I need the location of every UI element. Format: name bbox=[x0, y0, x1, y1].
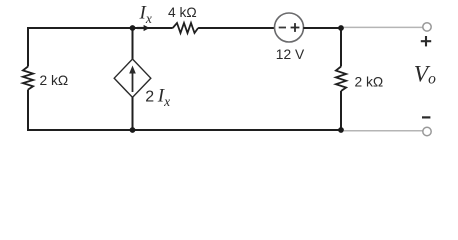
plus sign (output polarity) bbox=[421, 36, 431, 46]
wire right vertical (bottom part) bbox=[340, 91, 342, 130]
resistor R3 2 kOhm right bbox=[336, 67, 346, 92]
wire top segment D (source to right node) bbox=[303, 27, 341, 29]
wire left vertical (top part) bbox=[27, 28, 29, 67]
svg-text:2 kΩ: 2 kΩ bbox=[355, 74, 384, 89]
wire gray bottom (to output terminal) bbox=[344, 130, 423, 132]
wire top segment A (left corner to middle node) bbox=[27, 27, 133, 29]
junction node bottom-right bbox=[338, 127, 344, 133]
svg-text:Ix: Ix bbox=[139, 2, 152, 26]
wire bottom bbox=[27, 129, 341, 131]
svg-text:4 kΩ: 4 kΩ bbox=[168, 5, 197, 20]
junction node top-middle bbox=[130, 25, 136, 31]
minus sign (output polarity) bbox=[422, 116, 430, 118]
wire gray top (to output terminal) bbox=[344, 26, 423, 28]
wire middle vertical (top part) bbox=[132, 28, 134, 60]
junction node bottom-middle bbox=[130, 127, 136, 133]
wire right vertical (top part) bbox=[340, 28, 342, 67]
svg-text:2 kΩ: 2 kΩ bbox=[40, 73, 69, 88]
current arrow Ix on top wire bbox=[137, 25, 150, 31]
svg-text:2: 2 bbox=[145, 88, 154, 105]
terminal bottom (open circle) bbox=[423, 127, 431, 135]
wire top segment C (4k resistor to source) bbox=[198, 27, 275, 29]
voltage source V1 12V bbox=[275, 13, 304, 42]
svg-text:Ix: Ix bbox=[157, 85, 170, 109]
svg-text:Vo: Vo bbox=[414, 62, 436, 88]
terminal top (open circle) bbox=[423, 23, 431, 31]
dependent current source 2Ix (diamond) bbox=[114, 59, 151, 97]
wire left vertical (bottom part) bbox=[27, 90, 29, 130]
wire middle vertical (bottom part) bbox=[132, 97, 134, 130]
junction node top-right bbox=[338, 25, 344, 31]
resistor R2 4 kOhm bbox=[173, 23, 198, 33]
wire top segment B (node to 4k resistor) bbox=[133, 27, 173, 29]
svg-text:12 V: 12 V bbox=[276, 47, 305, 62]
resistor R1 2 kOhm left bbox=[23, 67, 33, 90]
